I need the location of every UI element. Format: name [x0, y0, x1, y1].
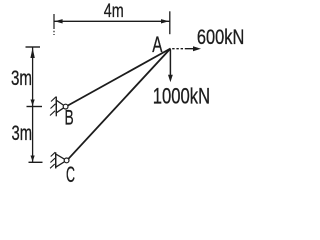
force arrow 600kN head: [193, 46, 201, 51]
support B wall line: [55, 97, 57, 117]
dim arrow down at bottom tick: [31, 156, 35, 162]
dim arrow right: [161, 19, 169, 23]
support B hatch 2: [51, 104, 56, 109]
dimension line 4m: [54, 20, 170, 22]
force arrow 1000kN head: [168, 75, 173, 83]
extension line left (at B vertical): [53, 14, 55, 35]
member AC: [68, 49, 171, 160]
svg-text:3m: 3m: [12, 122, 33, 145]
support C hatch 2: [50, 158, 55, 162]
svg-text:1000kN: 1000kN: [153, 84, 210, 109]
dimension line 3m+3m vertical: [32, 47, 34, 162]
svg-text:3m: 3m: [11, 67, 32, 90]
support B hatch 1: [51, 97, 56, 102]
dim arrow down at middle tick: [31, 100, 35, 106]
support C hatch 1: [51, 152, 56, 156]
tick bottom: [29, 161, 43, 163]
dim arrow left: [55, 19, 63, 23]
force arrow 600kN line: [172, 48, 194, 50]
tick middle: [27, 106, 43, 108]
svg-text:4m: 4m: [104, 1, 124, 22]
support C wall line: [55, 152, 57, 168]
svg-text:B: B: [65, 106, 74, 130]
support C hatch 3: [50, 164, 55, 168]
support B triangle: [56, 100, 65, 113]
svg-text:C: C: [66, 162, 75, 185]
tick top: [26, 46, 41, 48]
pin circle B: [63, 104, 68, 109]
pin circle C: [64, 158, 69, 163]
support C triangle: [56, 154, 67, 167]
dim arrow up at top tick: [30, 48, 34, 58]
svg-text:A: A: [152, 32, 162, 57]
extension line right (through node A): [169, 11, 171, 34]
member AB: [67, 49, 171, 107]
svg-text:600kN: 600kN: [197, 26, 244, 49]
support B hatch 3: [50, 111, 55, 116]
force arrow 1000kN line: [169, 50, 171, 78]
